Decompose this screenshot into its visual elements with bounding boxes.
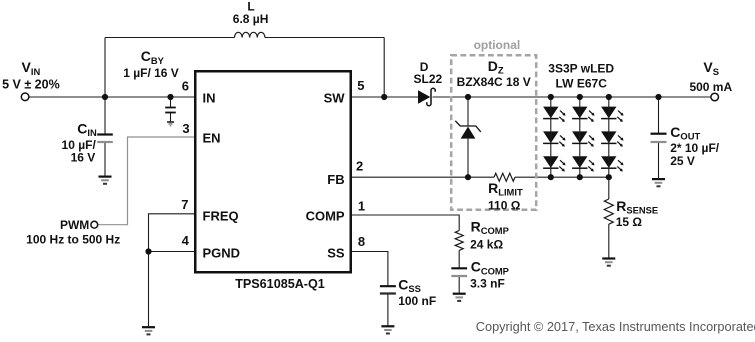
svg-text:110 Ω: 110 Ω: [488, 198, 521, 212]
svg-text:optional: optional: [474, 38, 521, 52]
svg-text:3.3 nF: 3.3 nF: [470, 277, 505, 291]
svg-text:8: 8: [358, 234, 365, 249]
svg-text:3: 3: [182, 121, 189, 136]
svg-text:BZX84C 18 V: BZX84C 18 V: [457, 75, 531, 89]
svg-text:5 V ± 20%: 5 V ± 20%: [2, 77, 60, 91]
svg-text:TPS61085A-Q1: TPS61085A-Q1: [235, 277, 325, 291]
svg-text:2: 2: [356, 158, 363, 173]
svg-text:24 kΩ: 24 kΩ: [470, 237, 503, 251]
svg-text:FB: FB: [327, 172, 344, 187]
svg-text:3S3P wLED: 3S3P wLED: [548, 61, 614, 75]
svg-text:6.8 µH: 6.8 µH: [233, 12, 269, 26]
svg-text:500 mA: 500 mA: [689, 80, 732, 94]
svg-text:SL22: SL22: [414, 72, 443, 86]
svg-text:16 V: 16 V: [71, 151, 96, 165]
svg-text:4: 4: [182, 233, 190, 248]
svg-text:1: 1: [358, 198, 365, 213]
svg-text:PWM: PWM: [60, 218, 89, 232]
svg-text:EN: EN: [203, 130, 221, 145]
svg-text:FREQ: FREQ: [203, 209, 239, 224]
svg-text:PGND: PGND: [203, 245, 241, 260]
svg-text:SS: SS: [327, 245, 345, 260]
svg-text:100 nF: 100 nF: [398, 294, 436, 308]
svg-text:6: 6: [182, 79, 189, 94]
svg-text:Copyright © 2017, Texas Instru: Copyright © 2017, Texas Instruments Inco…: [476, 319, 755, 334]
svg-text:LW E67C: LW E67C: [556, 77, 608, 91]
svg-text:5: 5: [357, 78, 364, 93]
svg-text:COMP: COMP: [306, 209, 345, 224]
svg-text:IN: IN: [203, 90, 216, 105]
svg-text:2* 10 µF/: 2* 10 µF/: [670, 141, 720, 155]
svg-text:100 Hz to 500 Hz: 100 Hz to 500 Hz: [26, 232, 120, 246]
svg-text:SW: SW: [324, 90, 346, 105]
svg-text:7: 7: [181, 197, 188, 212]
svg-text:25 V: 25 V: [670, 154, 695, 168]
svg-text:15 Ω: 15 Ω: [616, 215, 643, 229]
svg-text:1 µF/ 16 V: 1 µF/ 16 V: [123, 66, 179, 80]
